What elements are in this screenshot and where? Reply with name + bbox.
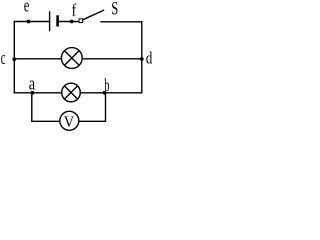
svg-text:c: c xyxy=(1,48,6,69)
svg-text:f: f xyxy=(72,0,77,19)
svg-text:d: d xyxy=(146,48,153,67)
svg-text:V: V xyxy=(64,114,75,131)
svg-text:b: b xyxy=(104,75,109,95)
svg-text:e: e xyxy=(24,0,30,17)
svg-text:S: S xyxy=(111,0,118,20)
svg-text:a: a xyxy=(29,74,36,95)
